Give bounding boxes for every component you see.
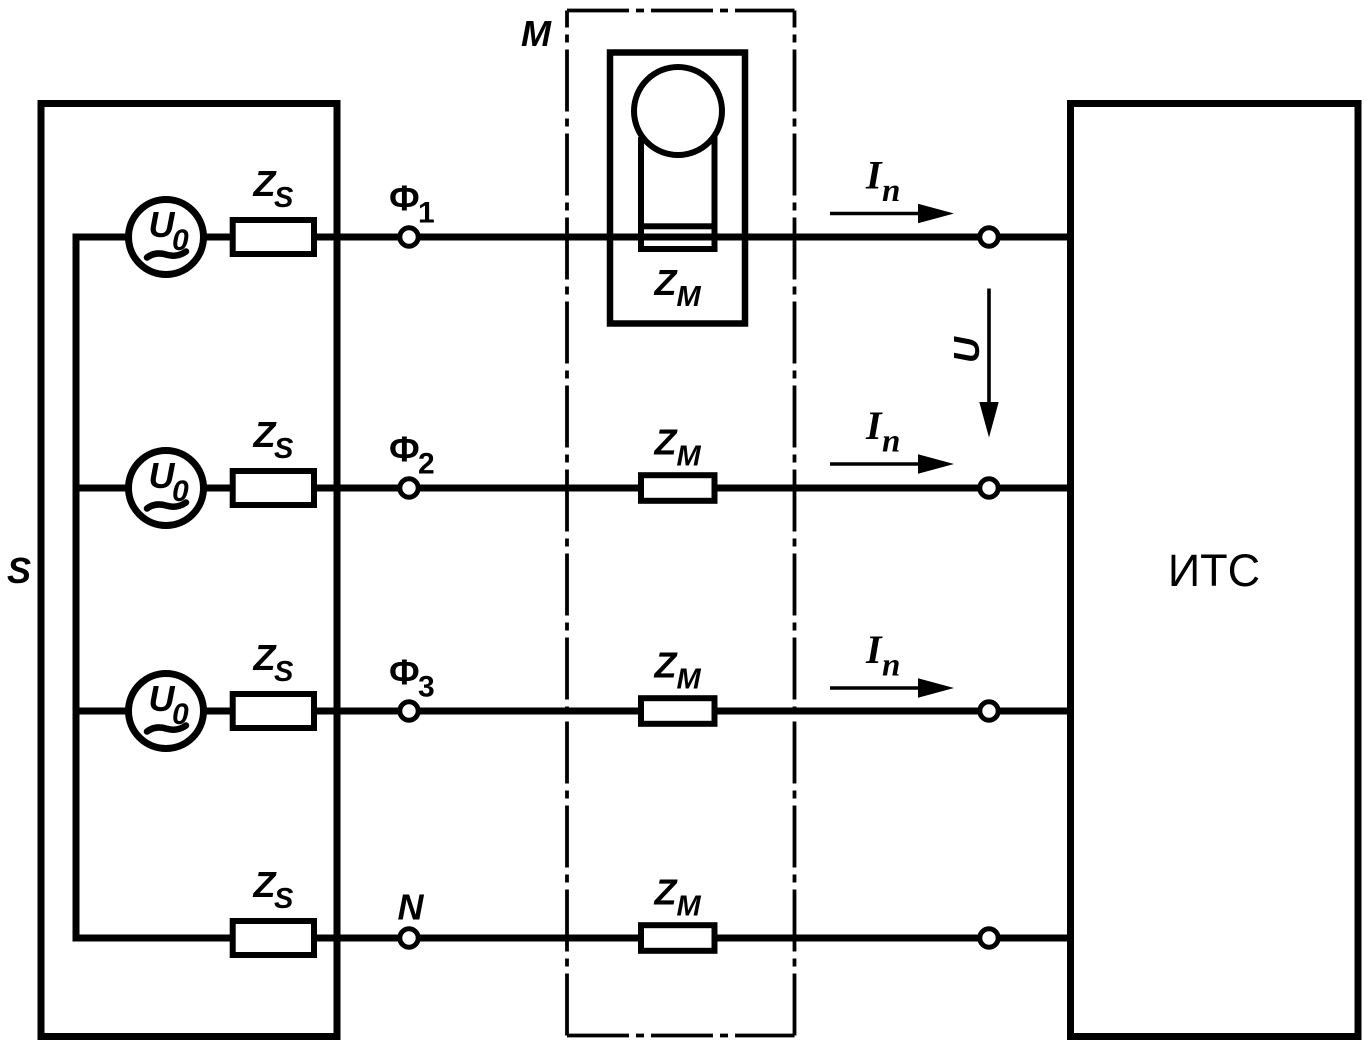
arrow In row2 bbox=[830, 454, 954, 473]
svg-text:Z: Z bbox=[654, 422, 679, 463]
label Zs row1 bbox=[253, 163, 295, 214]
node Ф1 bbox=[400, 228, 418, 246]
voltage source U0 row1 bbox=[129, 200, 204, 275]
svg-text:Ф: Ф bbox=[389, 429, 420, 470]
label Zs row4 bbox=[253, 864, 295, 915]
svg-text:n: n bbox=[882, 648, 900, 684]
label Ф3 bbox=[389, 652, 435, 704]
box M (dash-dot border) bbox=[567, 11, 795, 1036]
wire Zm to ITC row3 bbox=[715, 708, 1071, 715]
wire bus to source U0 row2 bbox=[73, 485, 129, 492]
svg-text:S: S bbox=[274, 883, 294, 915]
box S (source network) bbox=[41, 104, 337, 1037]
label In row2 bbox=[865, 403, 900, 460]
terminal row3 bbox=[980, 702, 998, 720]
terminal row4 bbox=[980, 929, 998, 947]
resistor Zs row4 bbox=[233, 921, 314, 955]
label Ф2 bbox=[389, 429, 435, 481]
wire source to Zs row2 bbox=[204, 485, 233, 492]
wire bus to source U0 row1 bbox=[73, 234, 129, 241]
svg-text:U: U bbox=[946, 336, 987, 363]
arrow U (voltage) bbox=[979, 289, 998, 438]
svg-text:M: M bbox=[677, 664, 702, 696]
node N bbox=[400, 929, 418, 947]
node Ф3 bbox=[400, 702, 418, 720]
arrow In row3 bbox=[830, 678, 954, 697]
wire Zs to Zm row2 bbox=[314, 485, 641, 492]
svg-text:ИТС: ИТС bbox=[1168, 545, 1260, 596]
svg-text:Ф: Ф bbox=[389, 652, 420, 693]
wire Zs to Zm row3 bbox=[314, 708, 641, 715]
svg-text:M: M bbox=[677, 441, 702, 473]
label Zm row3 bbox=[654, 645, 702, 696]
svg-text:I: I bbox=[865, 153, 883, 198]
measuring device neck bbox=[641, 137, 715, 226]
wire bus to source U0 row3 bbox=[73, 708, 129, 715]
svg-text:S: S bbox=[274, 433, 294, 465]
svg-text:Z: Z bbox=[654, 645, 679, 686]
svg-text:S: S bbox=[7, 550, 31, 591]
box ИТС (equipment under test) bbox=[1071, 104, 1359, 1037]
voltage source U0 row2 bbox=[129, 451, 204, 526]
svg-text:n: n bbox=[882, 173, 900, 209]
wire source to Zs row3 bbox=[204, 708, 233, 715]
svg-text:I: I bbox=[865, 403, 883, 448]
arrow In row1 bbox=[830, 204, 954, 223]
svg-text:Z: Z bbox=[654, 872, 679, 913]
svg-text:M: M bbox=[521, 13, 552, 54]
svg-text:S: S bbox=[274, 182, 294, 214]
resistor Zm row4 bbox=[641, 925, 715, 951]
resistor Zs row3 bbox=[233, 694, 314, 728]
resistor Zs row1 bbox=[233, 220, 314, 254]
label Zs row3 bbox=[253, 637, 295, 688]
terminal row1 bbox=[980, 228, 998, 246]
label Zm row4 bbox=[654, 872, 702, 923]
measuring device outer box bbox=[610, 53, 745, 324]
label Zs row2 bbox=[253, 414, 295, 465]
svg-text:M: M bbox=[677, 891, 702, 923]
measuring device: resistor Zm row1 bbox=[641, 226, 715, 249]
terminal row2 bbox=[980, 479, 998, 497]
svg-text:Z: Z bbox=[654, 262, 679, 303]
resistor Zs row2 bbox=[233, 471, 314, 505]
measuring device circle bbox=[634, 67, 722, 155]
svg-text:Ф: Ф bbox=[389, 178, 420, 219]
svg-text:1: 1 bbox=[418, 197, 435, 230]
svg-text:M: M bbox=[677, 281, 702, 313]
label In row1 bbox=[865, 153, 900, 210]
wire Zm to ITC row4 bbox=[715, 935, 1071, 942]
wire source to Zs row1 bbox=[204, 234, 233, 241]
wire bus to Zs row4 bbox=[73, 935, 234, 942]
svg-text:I: I bbox=[865, 627, 883, 672]
svg-text:S: S bbox=[274, 656, 294, 688]
voltage source U0 row3 bbox=[129, 674, 204, 749]
svg-text:n: n bbox=[882, 424, 900, 460]
svg-text:N: N bbox=[398, 887, 425, 928]
label Zm row1 bbox=[654, 262, 702, 313]
label Ф1 bbox=[389, 178, 435, 230]
wire Zs to Zm row4 bbox=[314, 935, 641, 942]
resistor Zm row3 bbox=[641, 698, 715, 724]
wire Zm to ITC row2 bbox=[715, 485, 1071, 492]
svg-text:2: 2 bbox=[418, 448, 435, 481]
svg-text:3: 3 bbox=[418, 671, 435, 704]
wire vertical bus bbox=[73, 237, 80, 938]
wire Zs to ITC row1 bbox=[314, 234, 1070, 241]
label In row3 bbox=[865, 627, 900, 684]
node Ф2 bbox=[400, 479, 418, 497]
resistor Zm row2 bbox=[641, 475, 715, 501]
label Zm row2 bbox=[654, 422, 702, 473]
